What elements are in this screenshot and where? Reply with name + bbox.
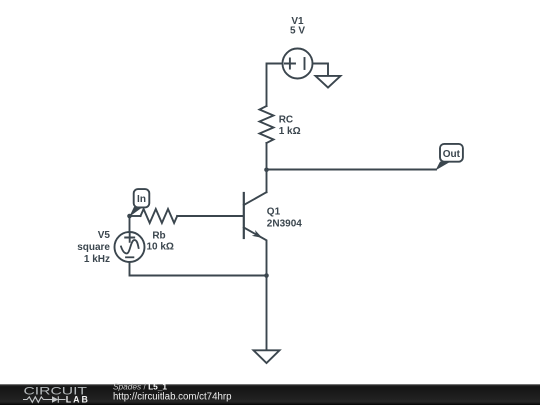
svg-text:Out: Out: [443, 149, 461, 160]
svg-text:Rb: Rb: [152, 230, 165, 241]
svg-text:In: In: [137, 194, 146, 205]
svg-text:RC: RC: [279, 115, 293, 126]
svg-text:Q1: Q1: [267, 206, 281, 217]
svg-text:http://circuitlab.com/ct74hrp: http://circuitlab.com/ct74hrp: [113, 391, 231, 402]
svg-text:5 V: 5 V: [290, 26, 305, 37]
svg-text:2N3904: 2N3904: [267, 218, 302, 229]
svg-text:square: square: [77, 242, 110, 253]
svg-text:V5: V5: [98, 230, 111, 241]
svg-text:10 kΩ: 10 kΩ: [146, 241, 173, 252]
svg-text:1 kΩ: 1 kΩ: [279, 126, 301, 137]
svg-text:1 kHz: 1 kHz: [84, 254, 110, 265]
svg-text:Spades / L5_1: Spades / L5_1: [113, 381, 167, 391]
svg-text:LAB: LAB: [66, 395, 90, 405]
